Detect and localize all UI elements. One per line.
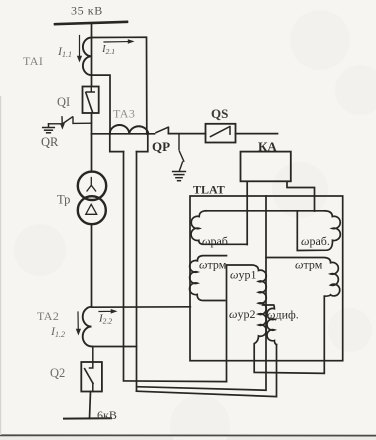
winding wrab left bbox=[191, 211, 247, 245]
winding wtrm right bbox=[266, 258, 340, 297]
svg-text:ωраб.: ωраб. bbox=[301, 234, 330, 248]
wye symbol bbox=[87, 178, 96, 192]
disconnector QS bbox=[206, 124, 236, 143]
wire leg A from TA3 bbox=[124, 152, 227, 382]
arrow I1.2 bbox=[76, 312, 81, 336]
ground QR bbox=[43, 124, 55, 133]
arrow I2.2 bbox=[99, 309, 118, 314]
svg-text:TLAT: TLAT bbox=[193, 183, 225, 197]
wire TA1 secondary a bbox=[92, 37, 147, 134]
disconnector QR bbox=[49, 117, 92, 130]
svg-text:6кВ: 6кВ bbox=[97, 408, 117, 422]
svg-text:QI: QI bbox=[57, 95, 70, 109]
switch QP bbox=[156, 127, 206, 133]
left scan edge bbox=[0, 96, 2, 435]
transformer Tp primary circle bbox=[78, 172, 106, 200]
wire Q1 to Tp bbox=[91, 113, 93, 172]
wire TA2 secondary bottom bbox=[92, 346, 137, 348]
breaker Q1 bbox=[83, 87, 99, 114]
wire mid vertical bbox=[137, 196, 266, 390]
svg-text:ωдиф.: ωдиф. bbox=[267, 308, 299, 322]
wire leg B bottom run bbox=[137, 345, 277, 397]
svg-text:Q2: Q2 bbox=[50, 366, 65, 380]
svg-text:QR: QR bbox=[41, 135, 59, 149]
CT TA3 primary wire bbox=[92, 133, 155, 135]
bus 6kV bbox=[64, 417, 111, 419]
TA3 secondary left bbox=[110, 134, 124, 152]
wire KA right lead bbox=[287, 181, 315, 211]
svg-text:TA2: TA2 bbox=[37, 309, 59, 323]
CT TA3 bumps bbox=[110, 125, 149, 134]
breaker Q2 bbox=[81, 347, 102, 392]
TA3 secondary right bbox=[137, 134, 148, 152]
svg-text:QS: QS bbox=[211, 106, 228, 121]
wire TA2 secondary top bbox=[92, 306, 190, 308]
svg-text:ωтрм: ωтрм bbox=[199, 258, 227, 272]
winding wrab right bbox=[297, 211, 340, 251]
svg-text:QP: QP bbox=[152, 139, 170, 154]
winding wdif bbox=[263, 305, 277, 345]
svg-text:TA3: TA3 bbox=[113, 107, 135, 121]
arrow I2.1 bbox=[104, 39, 135, 44]
wire KA left lead bbox=[246, 181, 248, 244]
svg-text:TAI: TAI bbox=[23, 54, 43, 68]
svg-text:ωур1: ωур1 bbox=[230, 268, 256, 282]
border bottom scan edge bbox=[0, 434, 376, 436]
earthing switch at QP bbox=[179, 134, 184, 171]
CT TA1 bbox=[83, 38, 92, 76]
wire QS to right bbox=[236, 133, 278, 135]
svg-text:ωраб.: ωраб. bbox=[202, 234, 231, 248]
winding wtrm left bbox=[190, 256, 227, 301]
arrow I1.1 bbox=[77, 36, 82, 63]
transformer TLAT box bbox=[190, 196, 343, 361]
wire TA1 secondary b bbox=[92, 75, 110, 134]
CT TA2 bbox=[83, 307, 92, 347]
winding wur column bbox=[227, 265, 325, 382]
svg-text:ωтрм: ωтрм bbox=[295, 258, 323, 272]
ground QP bbox=[173, 172, 186, 181]
svg-text:35 кВ: 35 кВ bbox=[71, 4, 103, 18]
wire leg B from TA3 bbox=[136, 152, 138, 392]
wire Tp to TA2 bbox=[91, 224, 93, 306]
wire feeder top bbox=[91, 23, 93, 87]
wire Q2 to bus bbox=[90, 392, 91, 419]
winding wrab tops wire bbox=[206, 210, 325, 212]
svg-text:КА: КА bbox=[258, 139, 277, 154]
svg-text:ωур2: ωур2 bbox=[229, 307, 255, 321]
transformer Tp secondary circle bbox=[78, 196, 106, 224]
bus 35kV bbox=[55, 22, 127, 24]
svg-text:Тр: Тр bbox=[57, 193, 70, 207]
delta symbol bbox=[86, 204, 97, 214]
relay KA bbox=[241, 152, 291, 182]
